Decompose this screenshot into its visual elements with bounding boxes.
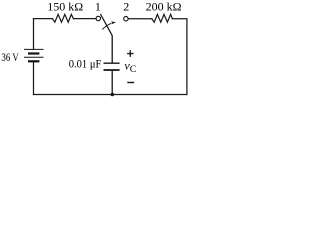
switch motion arrowhead bbox=[111, 21, 116, 24]
switch contact node 1 circle bbox=[96, 16, 100, 20]
bottom wire bbox=[34, 94, 187, 96]
wire top-left horizontal from corner to R1 bbox=[34, 18, 53, 20]
capacitor C1 top plate bbox=[104, 62, 120, 64]
switch motion arrow shaft bbox=[102, 23, 111, 29]
svg-text:2: 2 bbox=[123, 0, 129, 14]
wire capacitor to bottom bbox=[111, 71, 113, 95]
wire R2 to top-right corner and right vertical wire bbox=[172, 19, 187, 95]
svg-text:200 kΩ: 200 kΩ bbox=[146, 0, 182, 14]
capacitor C1 bottom plate bbox=[104, 69, 120, 71]
wire R1 to node 1 bbox=[74, 18, 96, 20]
svg-text:150 kΩ: 150 kΩ bbox=[47, 0, 83, 14]
switch arm (pole) bbox=[100, 14, 112, 36]
wire switch pivot down to capacitor bbox=[111, 35, 113, 63]
switch contact node 2 circle bbox=[124, 17, 128, 21]
label minus sign bbox=[127, 82, 134, 84]
label plus sign bbox=[127, 50, 133, 57]
svg-text:36 V: 36 V bbox=[1, 50, 19, 64]
wire node 2 to R2 bbox=[128, 18, 152, 20]
svg-text:C: C bbox=[130, 64, 137, 75]
svg-text:0.01 μF: 0.01 μF bbox=[69, 56, 102, 70]
battery V1 36V plates bbox=[24, 49, 44, 61]
resistor R1 150k zigzag bbox=[52, 14, 73, 22]
svg-text:1: 1 bbox=[95, 0, 101, 14]
resistor R2 200k zigzag bbox=[152, 14, 173, 22]
junction dot bbox=[111, 93, 115, 97]
left vertical wire upper (corner to battery) bbox=[33, 19, 35, 95]
